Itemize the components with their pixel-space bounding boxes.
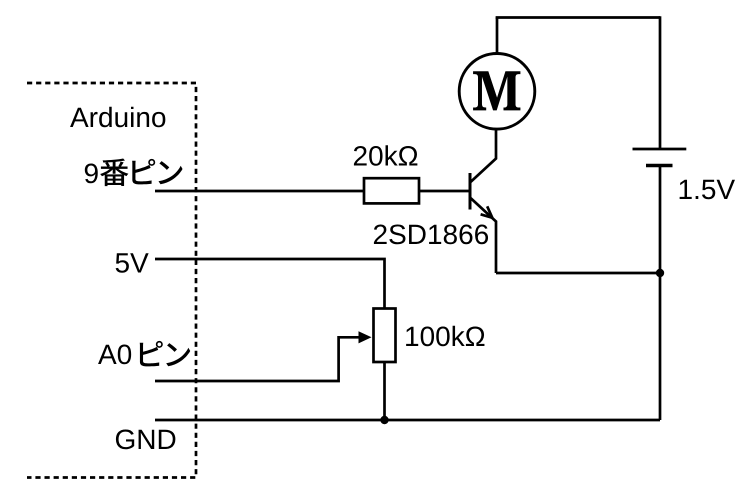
label: resistor R1 value 20k	[354, 145, 417, 166]
transistor Q1 emitter lead	[470, 198, 496, 274]
label: Arduino	[70, 107, 165, 128]
label: transistor Q1 part 2SD1866	[374, 224, 488, 244]
wire: 5V to potentiometer R2 top	[155, 259, 385, 309]
label: A0 pin letters	[98, 344, 131, 364]
label: 9-ban pin digit 9	[85, 163, 98, 183]
junction: Q1 emitter / right rail	[656, 269, 664, 277]
wire: right rail lower from battery BT1 to GND rail	[659, 166, 662, 421]
label: A0 pin katakana n	[166, 343, 190, 366]
motor M1 circle	[459, 54, 535, 130]
junction: potentiometer R2 / GND rail	[380, 416, 388, 424]
label: A0 pin katakana pi	[140, 341, 163, 366]
label: potentiometer R2 value 100k	[406, 326, 484, 347]
transistor Q1 base bar	[469, 173, 472, 210]
wire: A0 pin to R2 wiper	[155, 337, 363, 381]
label: 5V pin	[116, 253, 149, 273]
battery BT1 long plate	[633, 148, 687, 151]
wire: resistor R1 to transistor Q1 base	[419, 190, 469, 193]
transistor Q1 emitter arrowhead	[481, 206, 493, 218]
resistor R1 20k body	[364, 178, 419, 203]
label: 9-ban pin katakana pi	[132, 159, 155, 184]
transistor Q1 collector lead	[470, 129, 496, 183]
wire: top rail	[496, 16, 660, 19]
Arduino enclosure dashed box	[27, 83, 196, 478]
potentiometer R2 100k body	[374, 309, 396, 363]
motor M1 letter M	[473, 71, 520, 110]
label: 9-ban pin kanji ban	[100, 158, 128, 186]
potentiometer R2 wiper arrowhead	[359, 331, 372, 343]
label: battery BT1 voltage 1.5V	[680, 180, 735, 200]
label: GND pin	[116, 429, 175, 449]
wire: motor M1 top lead	[496, 18, 499, 54]
wire: right rail upper to battery BT1	[659, 16, 662, 149]
wire: GND rail	[155, 419, 660, 422]
battery BT1 short plate	[646, 164, 673, 167]
wire: Q1 emitter to right rail	[496, 272, 660, 275]
wire: potentiometer R2 bottom to GND rail	[383, 362, 386, 420]
wire: 9-ban pin to resistor R1	[155, 190, 364, 193]
label: 9-ban pin katakana n	[159, 161, 183, 184]
